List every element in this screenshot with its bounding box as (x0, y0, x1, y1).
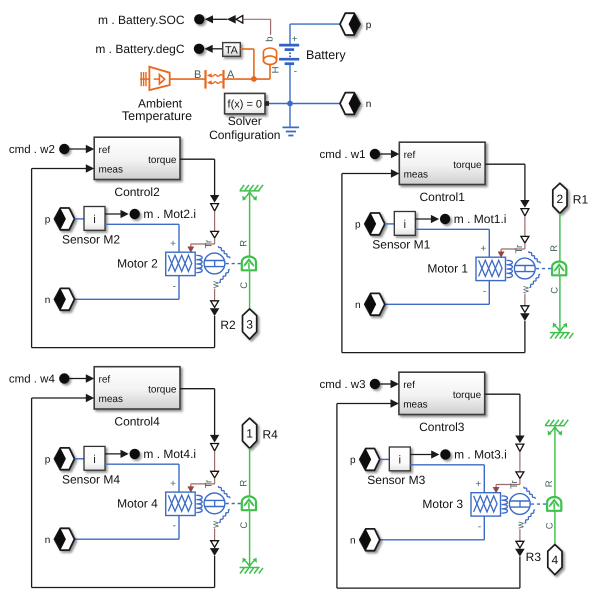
svg-text:Motor 1: Motor 1 (427, 262, 468, 276)
svg-text:torque: torque (453, 390, 482, 401)
svg-text:i: i (93, 214, 96, 226)
svg-text:Control3: Control3 (419, 420, 465, 434)
svg-text:B: B (194, 69, 201, 81)
svg-text:n: n (355, 300, 361, 311)
svg-text:R: R (544, 480, 555, 487)
svg-text:Sensor M1: Sensor M1 (372, 237, 430, 251)
svg-text:4: 4 (552, 553, 559, 567)
svg-text:b: b (265, 37, 276, 42)
svg-text:C: C (550, 287, 561, 294)
svg-text:meas: meas (99, 394, 123, 405)
svg-text:w: w (516, 522, 527, 530)
svg-text:A: A (227, 69, 235, 81)
svg-text:Sensor M3: Sensor M3 (367, 473, 425, 487)
svg-text:p: p (45, 455, 51, 466)
svg-text:Motor 4: Motor 4 (117, 497, 158, 511)
svg-text:ref: ref (404, 150, 416, 161)
svg-text:+: + (480, 244, 486, 255)
svg-text:m . Mot2.i: m . Mot2.i (143, 207, 196, 221)
svg-text:Tr: Tr (509, 480, 520, 489)
svg-text:+: + (292, 34, 298, 45)
svg-text:p: p (355, 220, 361, 231)
svg-text:1: 1 (246, 427, 253, 441)
svg-text:Control2: Control2 (114, 185, 160, 199)
svg-text:p: p (350, 455, 356, 466)
svg-text:Tr: Tr (204, 240, 215, 249)
svg-text:R: R (239, 480, 250, 487)
svg-text:m . Mot4.i: m . Mot4.i (143, 447, 196, 461)
svg-text:Solver: Solver (228, 114, 262, 128)
svg-text:w: w (521, 286, 532, 294)
svg-text:H: H (270, 66, 281, 73)
svg-text:torque: torque (148, 384, 177, 395)
svg-text:C: C (545, 522, 556, 529)
svg-text:cmd . w1: cmd . w1 (319, 149, 365, 161)
svg-text:C: C (239, 522, 250, 529)
svg-text:p: p (45, 215, 51, 226)
svg-text:TA: TA (225, 44, 238, 56)
svg-text:-: - (173, 521, 176, 532)
svg-text:Sensor M4: Sensor M4 (62, 472, 120, 486)
svg-text:i: i (399, 455, 402, 467)
svg-text:R2: R2 (220, 318, 236, 332)
svg-text:Tr: Tr (204, 480, 215, 489)
svg-text:Control1: Control1 (420, 190, 466, 204)
svg-text:-: - (173, 281, 176, 292)
svg-text:+: + (475, 479, 481, 490)
svg-text:Motor 3: Motor 3 (422, 497, 463, 511)
svg-text:Tr: Tr (514, 245, 525, 254)
svg-text:R3: R3 (526, 550, 542, 564)
svg-text:i: i (404, 219, 407, 231)
svg-text:Sensor M2: Sensor M2 (62, 232, 120, 246)
svg-text:i: i (93, 454, 96, 466)
svg-text:Battery: Battery (306, 48, 346, 62)
svg-text:Temperature: Temperature (122, 109, 192, 123)
svg-text:C: C (239, 282, 250, 289)
svg-text:meas: meas (99, 164, 123, 175)
svg-text:2: 2 (557, 192, 564, 206)
svg-text:meas: meas (404, 169, 428, 180)
svg-text:-: - (294, 66, 297, 77)
svg-text:n: n (45, 295, 51, 306)
svg-text:n: n (45, 535, 51, 546)
svg-text:p: p (366, 20, 372, 31)
svg-text:f(x) = 0: f(x) = 0 (228, 99, 263, 111)
svg-text:+: + (170, 478, 176, 489)
svg-text:m . Mot1.i: m . Mot1.i (454, 212, 507, 226)
svg-text:R: R (239, 240, 250, 247)
svg-text:m . Battery.degC: m . Battery.degC (95, 42, 184, 56)
svg-text:torque: torque (148, 155, 177, 166)
svg-text:w: w (210, 281, 221, 289)
svg-text:meas: meas (403, 399, 427, 410)
svg-text:R: R (549, 245, 560, 252)
svg-text:m . Battery.SOC: m . Battery.SOC (98, 13, 185, 27)
svg-text:cmd . w3: cmd . w3 (319, 379, 365, 391)
svg-text:Configuration: Configuration (209, 128, 280, 142)
svg-text:cmd . w2: cmd . w2 (9, 144, 55, 156)
svg-text:Control4: Control4 (114, 415, 160, 429)
svg-text:-: - (478, 521, 481, 532)
svg-text:n: n (366, 99, 372, 110)
svg-text:m . Mot3.i: m . Mot3.i (454, 448, 507, 462)
svg-text:n: n (350, 536, 356, 547)
svg-text:3: 3 (246, 318, 253, 332)
svg-text:-: - (483, 286, 486, 297)
svg-text:ref: ref (99, 374, 111, 385)
svg-text:torque: torque (453, 160, 482, 171)
svg-text:R4: R4 (263, 427, 279, 441)
svg-text:cmd . w4: cmd . w4 (9, 374, 56, 386)
svg-text:w: w (210, 521, 221, 529)
svg-text:ref: ref (99, 145, 111, 156)
svg-text:Motor 2: Motor 2 (117, 257, 158, 271)
svg-text:R1: R1 (573, 192, 589, 206)
svg-text:ref: ref (403, 380, 415, 391)
svg-text:+: + (170, 239, 176, 250)
